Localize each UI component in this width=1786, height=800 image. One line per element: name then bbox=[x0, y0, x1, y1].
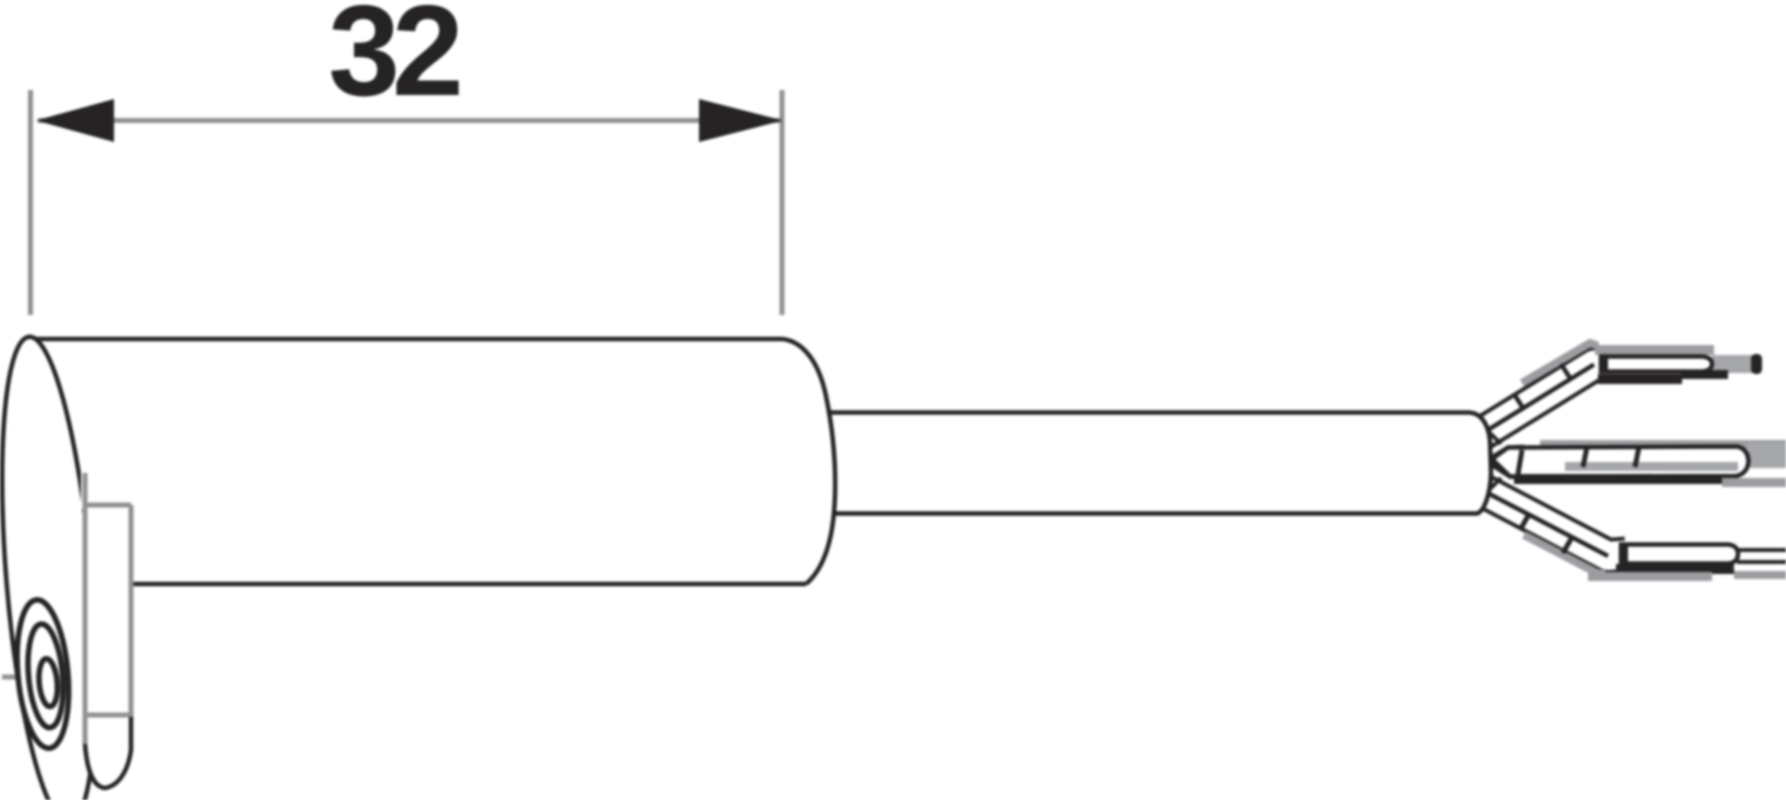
bottom wire heavy under band bbox=[1616, 564, 1734, 574]
middle wire heavy bottom band bbox=[1514, 474, 1722, 484]
mounting tab right edge bbox=[129, 505, 134, 719]
middle wire inner gray stripe bbox=[1565, 462, 1738, 471]
bottom wire tube left tick bbox=[1622, 543, 1628, 564]
mounting tab lower outline bbox=[85, 717, 131, 788]
top wire tube left tick bbox=[1602, 355, 1608, 373]
mounting tab top step bbox=[84, 503, 131, 508]
flange hidden edge tick bbox=[2, 675, 16, 680]
bottom wire conductor bbox=[1737, 547, 1786, 565]
bottom wire tick marks bbox=[1520, 516, 1528, 530]
top wire tick marks bbox=[1514, 394, 1523, 408]
top wire diagonal gray highlight bbox=[1522, 343, 1598, 383]
top wire insulation tube bbox=[1601, 357, 1712, 372]
bottom wire insulation tube bbox=[1621, 545, 1738, 564]
svg-text:32: 32 bbox=[328, 0, 459, 123]
dimension extension line left bbox=[28, 90, 33, 315]
top wire heavy under band bbox=[1598, 374, 1682, 384]
mounting tab hidden-edge mask bbox=[81, 469, 94, 509]
cable crotch wedge top bbox=[1489, 432, 1501, 444]
sensor body right end cap bbox=[782, 339, 835, 584]
cable crotch wedge bottom bbox=[1489, 478, 1501, 490]
bottom wire under shadow bbox=[1588, 572, 1712, 581]
mounting tab flange crossing line bbox=[86, 713, 129, 718]
sensor body (cylinder) fill bbox=[30, 339, 835, 584]
bottom wire diagonal gray highlight bbox=[1524, 535, 1605, 574]
dimension extension line right bbox=[780, 90, 785, 315]
bottom wire diagonal cluster bbox=[1478, 488, 1626, 556]
sensor body top outline bbox=[30, 337, 782, 342]
middle wire insulation tube bbox=[1492, 447, 1749, 477]
middle wire tick marks bbox=[1518, 450, 1522, 474]
middle wire gray top band bbox=[1540, 440, 1786, 449]
cable bbox=[826, 413, 1491, 514]
screw hole bbox=[12, 598, 75, 751]
mounting tab fill bbox=[84, 505, 131, 788]
screw hole outer ellipse bbox=[12, 598, 75, 751]
middle wire insulation tube left wedge bbox=[1486, 447, 1522, 477]
top wire gray top band bbox=[1595, 345, 1714, 355]
flange plate (left end ellipse) bbox=[0, 333, 111, 800]
right arrowhead bbox=[699, 99, 783, 142]
middle wire conductor bbox=[1748, 443, 1786, 468]
left arrowhead bbox=[36, 99, 114, 142]
mounting tab left edge bbox=[83, 473, 88, 744]
screw hole middle ellipse bbox=[24, 623, 67, 730]
dimension line bbox=[38, 118, 780, 123]
top wire conductor bbox=[1712, 355, 1753, 373]
sensor body bottom outline bbox=[131, 582, 806, 587]
top wire conductor end cap bbox=[1751, 354, 1762, 374]
middle wire bottom shadow bbox=[1722, 478, 1786, 487]
top wire diagonal cluster bbox=[1478, 364, 1610, 436]
screw hole inner ellipse bbox=[37, 658, 59, 707]
